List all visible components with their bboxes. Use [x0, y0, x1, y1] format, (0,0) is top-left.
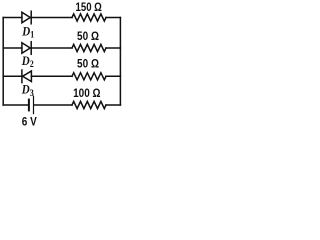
wire row3 left segment — [3, 75, 22, 77]
svg-text:D2: D2 — [21, 54, 34, 69]
resistor R1 150 ohm — [72, 14, 106, 21]
svg-text:100 Ω: 100 Ω — [73, 87, 101, 100]
svg-text:6 V: 6 V — [22, 116, 38, 129]
wire row1 middle segment — [31, 17, 72, 19]
wire row4 middle segment — [34, 104, 72, 106]
svg-text:50 Ω: 50 Ω — [77, 58, 99, 71]
wire row2 left segment — [3, 47, 22, 49]
wire row4 left segment — [3, 104, 28, 106]
wire row1 left segment — [3, 17, 22, 19]
resistor R2 50 ohm — [72, 44, 106, 51]
diode D3 — [22, 70, 32, 83]
wire row1 right segment — [106, 17, 120, 19]
svg-text:150 Ω: 150 Ω — [76, 1, 103, 14]
wire left rail — [2, 18, 4, 106]
wire row2 middle segment — [31, 47, 72, 49]
battery 6V — [29, 96, 34, 113]
svg-text:50 Ω: 50 Ω — [77, 30, 99, 43]
wire row2 right segment — [106, 47, 120, 49]
diode D1 — [22, 11, 31, 24]
wire row4 right segment — [106, 104, 120, 106]
resistor R3 50 ohm — [72, 73, 106, 80]
wire right rail — [119, 18, 121, 106]
wire row3 middle segment — [31, 75, 72, 77]
wire row3 right segment — [106, 75, 120, 77]
diode D2 — [22, 42, 31, 55]
resistor R4 100 ohm — [72, 101, 106, 108]
svg-text:D3: D3 — [21, 83, 34, 98]
svg-text:D1: D1 — [21, 25, 34, 40]
